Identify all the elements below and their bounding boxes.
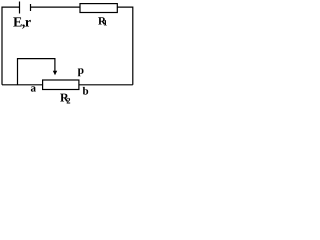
- label E,r: [13, 17, 31, 28]
- wire battery to R1: [31, 6, 80, 8]
- label a: [31, 86, 36, 91]
- wiper arrowhead p: [53, 71, 57, 76]
- rheostat R2 body: [43, 80, 79, 90]
- label R1: [98, 17, 106, 24]
- label b: [83, 87, 89, 95]
- wiper branch wire: [18, 59, 55, 85]
- wire bottom left (a side): [2, 84, 43, 86]
- label p: [78, 68, 84, 76]
- resistor R1 body: [80, 4, 117, 13]
- wire top-left from battery to left frame corner: [2, 7, 19, 85]
- label R2: [60, 94, 69, 102]
- wire R1 to right frame: [117, 7, 133, 85]
- battery E,r short plate: [30, 4, 32, 11]
- battery E,r long plate: [19, 2, 21, 14]
- wire bottom right (b side): [79, 84, 133, 86]
